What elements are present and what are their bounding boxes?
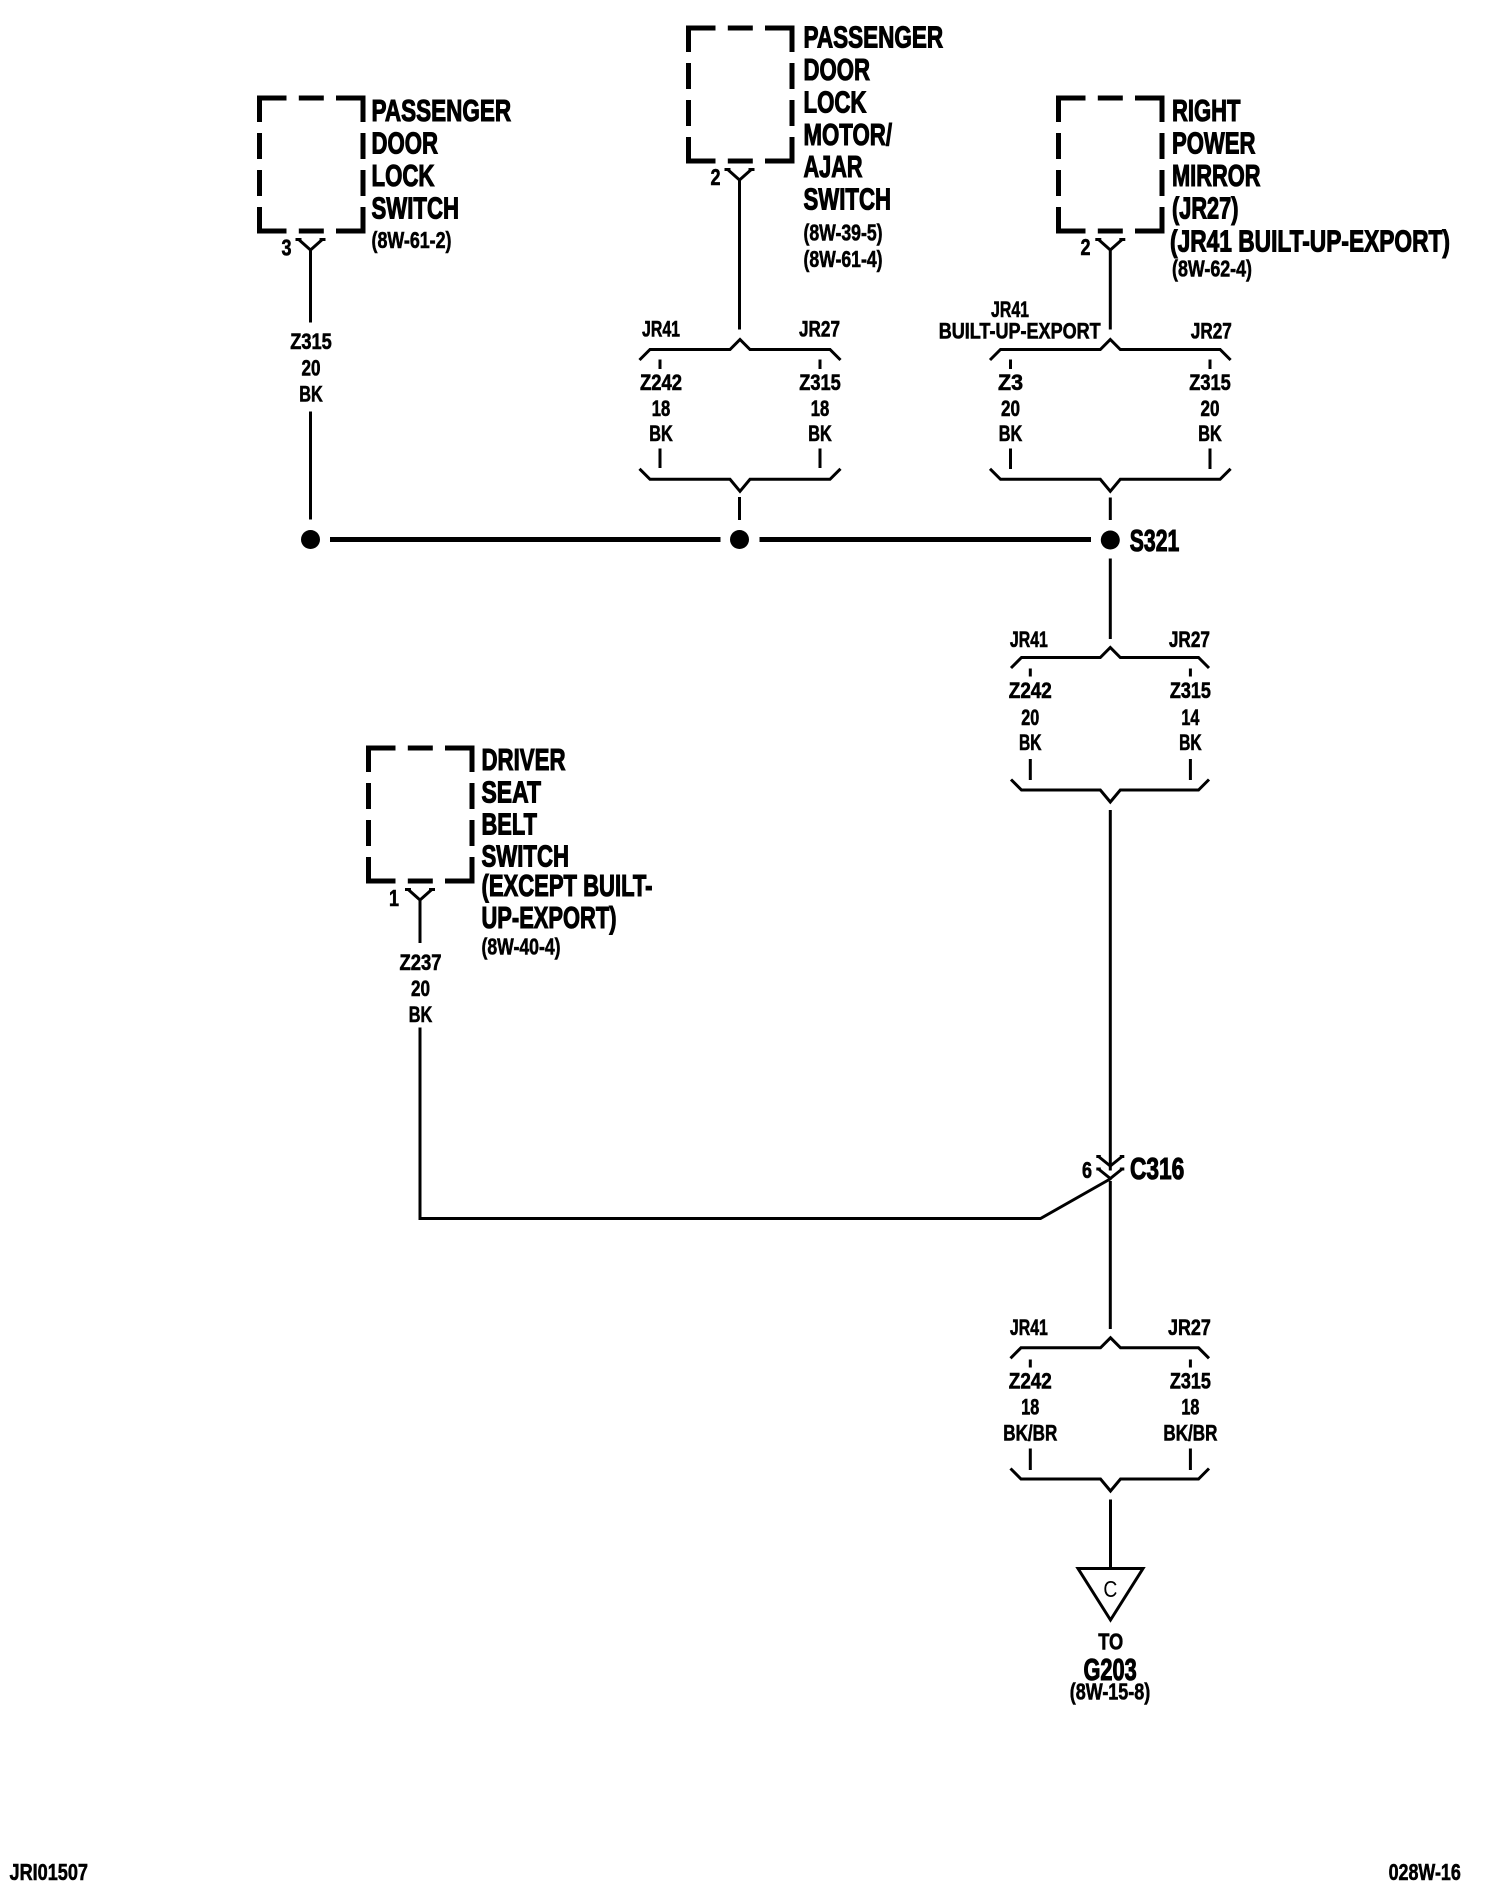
left dashed stub lower (group 4) xyxy=(1029,1449,1032,1471)
top variant brace (group 2) xyxy=(990,340,1231,361)
svg-text:2: 2 xyxy=(711,164,721,190)
left dashed stub upper (group 1) xyxy=(659,360,662,370)
wire from group 4 down to off-page triangle xyxy=(1109,1500,1112,1569)
bottom variant brace (group 3) xyxy=(1011,780,1209,803)
svg-text:(8W-39-5): (8W-39-5) xyxy=(804,220,883,246)
off-page connector triangle C (to ground G203) xyxy=(1078,1569,1143,1621)
svg-text:SWITCH: SWITCH xyxy=(804,183,892,217)
connector arrow at pin 2 (right power mirror) xyxy=(1095,240,1125,251)
svg-text:20: 20 xyxy=(302,356,321,381)
svg-text:028W-16: 028W-16 xyxy=(1389,1859,1461,1885)
wire from pin 2 down to variant brace xyxy=(738,180,741,330)
svg-text:JR41: JR41 xyxy=(1010,627,1048,652)
svg-text:18: 18 xyxy=(1021,1394,1039,1419)
left dashed stub lower (group 2) xyxy=(1009,449,1012,470)
svg-text:C: C xyxy=(1103,1576,1117,1602)
svg-text:Z315: Z315 xyxy=(1170,678,1211,703)
component box: passenger door lock switch (dashed outline) xyxy=(260,98,364,231)
svg-text:PASSENGER: PASSENGER xyxy=(804,21,944,55)
wire from connector C316 down to variant brace group 4 xyxy=(1109,1181,1112,1329)
svg-text:JRI01507: JRI01507 xyxy=(10,1859,89,1885)
component box: driver seat belt switch (dashed outline) xyxy=(369,748,473,881)
svg-text:Z242: Z242 xyxy=(1009,1368,1052,1393)
svg-text:(EXCEPT BUILT-: (EXCEPT BUILT- xyxy=(482,869,653,903)
svg-text:(JR27): (JR27) xyxy=(1172,192,1239,226)
wire Z237 run: down, right and diagonal up to C316 pin 6 xyxy=(420,1028,1111,1219)
svg-text:20: 20 xyxy=(411,976,430,1001)
svg-text:SEAT: SEAT xyxy=(482,775,542,809)
svg-text:(8W-62-4): (8W-62-4) xyxy=(1172,255,1252,281)
svg-text:JR41: JR41 xyxy=(642,317,680,342)
svg-text:1: 1 xyxy=(389,885,399,911)
svg-text:SWITCH: SWITCH xyxy=(372,192,460,226)
right dashed stub lower (group 3) xyxy=(1189,759,1192,780)
top variant brace (group 4) xyxy=(1011,1338,1210,1359)
top variant brace (group 3) xyxy=(1011,648,1209,669)
svg-text:(8W-61-2): (8W-61-2) xyxy=(372,227,452,253)
svg-text:LOCK: LOCK xyxy=(804,85,867,119)
right dashed stub upper (group 2) xyxy=(1209,360,1212,370)
svg-text:PASSENGER: PASSENGER xyxy=(372,94,512,128)
svg-text:DOOR: DOOR xyxy=(372,127,439,161)
wire from S321 down to variant brace group 3 xyxy=(1109,559,1112,640)
in-line connector C316 upper chevron xyxy=(1096,1157,1124,1167)
svg-text:Z237: Z237 xyxy=(400,950,442,975)
bottom variant brace (group 4) xyxy=(1011,1469,1210,1492)
svg-text:Z315: Z315 xyxy=(290,329,332,354)
in-line connector C316 lower chevron xyxy=(1096,1169,1124,1179)
svg-text:BELT: BELT xyxy=(482,808,538,842)
wire stub from group 2 to splice S321 xyxy=(1109,498,1112,521)
svg-text:BK: BK xyxy=(999,421,1023,446)
svg-text:Z315: Z315 xyxy=(1189,370,1231,395)
svg-text:Z315: Z315 xyxy=(1170,1368,1211,1393)
svg-text:BK: BK xyxy=(1019,730,1042,755)
svg-text:DRIVER: DRIVER xyxy=(482,743,566,777)
top variant brace (group 1) xyxy=(640,340,841,361)
svg-text:BK: BK xyxy=(649,421,673,446)
svg-text:MIRROR: MIRROR xyxy=(1172,159,1261,193)
svg-text:BK: BK xyxy=(299,382,323,407)
junction dot at middle of splice bus xyxy=(730,530,749,549)
wire from group 3 down to connector C316 xyxy=(1109,810,1112,1171)
splice S321 junction dot xyxy=(1101,531,1120,550)
svg-text:JR27: JR27 xyxy=(1168,1315,1211,1340)
svg-text:BK: BK xyxy=(1198,421,1222,446)
svg-text:RIGHT: RIGHT xyxy=(1172,94,1241,128)
svg-text:14: 14 xyxy=(1181,705,1200,730)
svg-text:Z3: Z3 xyxy=(998,370,1023,395)
svg-text:DOOR: DOOR xyxy=(804,53,871,87)
left dashed stub upper (group 4) xyxy=(1029,1360,1032,1368)
svg-text:S321: S321 xyxy=(1130,524,1180,558)
svg-text:18: 18 xyxy=(811,396,830,421)
svg-text:JR27: JR27 xyxy=(1169,627,1210,652)
svg-text:Z242: Z242 xyxy=(640,370,682,395)
svg-text:C316: C316 xyxy=(1130,1152,1184,1186)
right dashed stub upper (group 3) xyxy=(1189,669,1192,677)
svg-text:UP-EXPORT): UP-EXPORT) xyxy=(482,901,617,935)
component box: right power mirror (dashed outline) xyxy=(1059,98,1163,231)
connector arrow at pin 1 xyxy=(405,890,435,901)
wire stub from group 1 to bus junction xyxy=(738,497,741,520)
svg-text:AJAR: AJAR xyxy=(804,150,863,184)
svg-text:2: 2 xyxy=(1081,234,1091,260)
bottom variant brace (group 2) xyxy=(990,469,1231,492)
svg-text:(8W-61-4): (8W-61-4) xyxy=(804,246,883,272)
left dashed stub lower (group 3) xyxy=(1029,759,1032,780)
svg-text:20: 20 xyxy=(1001,396,1020,421)
right dashed stub lower (group 1) xyxy=(819,449,822,469)
svg-text:JR27: JR27 xyxy=(799,317,840,342)
right dashed stub upper (group 1) xyxy=(819,360,822,370)
svg-text:20: 20 xyxy=(1201,396,1220,421)
left dashed stub lower (group 1) xyxy=(659,449,662,469)
connector arrow at pin 3 xyxy=(296,240,326,251)
wire Z315 lower segment to splice xyxy=(309,412,312,520)
svg-text:(JR41 BUILT-UP-EXPORT): (JR41 BUILT-UP-EXPORT) xyxy=(1170,224,1450,258)
svg-text:JR27: JR27 xyxy=(1191,318,1232,343)
splice bus wire (right segment) xyxy=(760,537,1092,542)
wire from mirror pin 2 down to variant brace xyxy=(1109,250,1112,330)
svg-text:TO: TO xyxy=(1098,1629,1123,1655)
svg-text:BK/BR: BK/BR xyxy=(1163,1420,1217,1445)
right dashed stub lower (group 2) xyxy=(1209,449,1212,470)
splice bus wire (left segment) xyxy=(330,537,721,542)
bottom variant brace (group 1) xyxy=(640,469,841,492)
svg-text:6: 6 xyxy=(1082,1157,1092,1183)
svg-text:BUILT-UP-EXPORT: BUILT-UP-EXPORT xyxy=(939,318,1101,343)
right dashed stub upper (group 4) xyxy=(1189,1360,1192,1368)
svg-text:JR41: JR41 xyxy=(1010,1315,1048,1340)
wire Z315 upper segment from pin 3 xyxy=(309,250,312,323)
svg-text:20: 20 xyxy=(1021,705,1039,730)
svg-text:18: 18 xyxy=(1181,1394,1199,1419)
svg-text:Z315: Z315 xyxy=(799,370,841,395)
svg-text:LOCK: LOCK xyxy=(372,159,435,193)
svg-text:(8W-15-8): (8W-15-8) xyxy=(1070,1678,1151,1704)
svg-text:MOTOR/: MOTOR/ xyxy=(804,118,893,152)
svg-text:18: 18 xyxy=(652,396,671,421)
connector arrow at pin 2 (door lock motor) xyxy=(725,170,755,181)
svg-text:BK: BK xyxy=(409,1002,433,1027)
right dashed stub lower (group 4) xyxy=(1189,1449,1192,1471)
svg-text:3: 3 xyxy=(282,234,292,260)
junction dot at left end of splice bus xyxy=(301,530,320,549)
wire Z237 upper segment from pin 1 xyxy=(419,900,422,943)
svg-text:Z242: Z242 xyxy=(1009,678,1052,703)
svg-text:(8W-40-4): (8W-40-4) xyxy=(482,934,561,960)
svg-text:BK: BK xyxy=(808,421,832,446)
component box: passenger door lock motor/ajar switch (dashed outline) xyxy=(689,28,793,161)
left dashed stub upper (group 2) xyxy=(1009,360,1012,370)
svg-text:BK/BR: BK/BR xyxy=(1003,1420,1057,1445)
svg-text:BK: BK xyxy=(1179,730,1202,755)
svg-text:POWER: POWER xyxy=(1172,127,1256,161)
left dashed stub upper (group 3) xyxy=(1029,669,1032,677)
